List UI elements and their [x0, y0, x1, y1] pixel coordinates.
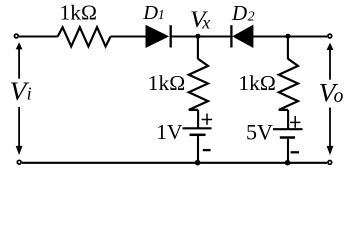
- svg-text:i: i: [27, 84, 32, 104]
- terminal bottom-right: [328, 161, 332, 165]
- wire R2 to battery B1: [197, 110, 199, 128]
- battery B2 5V plates: [273, 129, 303, 137]
- arrow Vo down: [327, 108, 334, 156]
- junction dot bottom of 1V branch: [195, 160, 201, 166]
- svg-text:1: 1: [158, 8, 165, 23]
- svg-text:5V: 5V: [246, 119, 273, 144]
- minus sign B2: [291, 151, 299, 153]
- plus sign B1: [202, 114, 213, 125]
- terminal top-left: [14, 34, 18, 38]
- svg-text:D: D: [231, 1, 247, 25]
- wire top node down to R3: [287, 37, 289, 60]
- junction dot bottom of 5V branch: [285, 160, 291, 166]
- minus sign B1: [203, 149, 211, 151]
- diode D2: [231, 25, 253, 47]
- resistor R1 1kΩ horizontal: [58, 27, 111, 46]
- diode D1: [146, 25, 171, 47]
- terminal bottom-left: [17, 160, 21, 164]
- terminal top-right: [328, 34, 332, 38]
- arrow Vi up: [16, 42, 23, 78]
- svg-text:D: D: [142, 2, 158, 24]
- plus sign B2: [290, 116, 300, 128]
- svg-text:x: x: [201, 13, 210, 33]
- svg-text:o: o: [334, 86, 344, 107]
- arrow Vi down: [16, 107, 23, 155]
- wire top-left to R1: [19, 35, 58, 37]
- wire Vx node down to R2: [197, 37, 199, 60]
- wire bottom: [22, 162, 327, 164]
- node junction dot top of 5V branch: [285, 34, 290, 39]
- svg-text:1V: 1V: [156, 120, 183, 144]
- svg-text:1kΩ: 1kΩ: [60, 0, 97, 24]
- node Vx junction dot: [195, 34, 200, 39]
- wire D1 to D2: [171, 35, 232, 37]
- wire R3 to battery B2: [287, 110, 289, 129]
- wire B2 to bottom: [287, 139, 289, 163]
- wire B1 to bottom: [197, 135, 199, 163]
- svg-text:1kΩ: 1kΩ: [148, 71, 185, 95]
- wire R1 to D1: [111, 35, 147, 37]
- battery B1 1V plates: [183, 128, 212, 135]
- resistor R3 1kΩ vertical: [279, 59, 298, 110]
- resistor R2 1kΩ vertical: [189, 59, 208, 110]
- wire D2 to terminal top-right: [253, 35, 327, 37]
- arrow Vo up: [327, 43, 334, 80]
- svg-text:1kΩ: 1kΩ: [238, 71, 275, 95]
- svg-text:2: 2: [248, 10, 255, 25]
